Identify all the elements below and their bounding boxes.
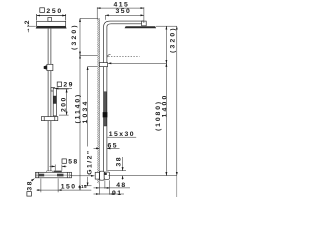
hand shower knob xyxy=(103,112,107,117)
leader sq38 xyxy=(31,179,35,181)
svg-text:250: 250 xyxy=(46,8,62,15)
dim 150 extension lines xyxy=(40,179,42,193)
dashed holder line xyxy=(108,56,139,58)
valve side view wall union xyxy=(95,172,99,179)
svg-text:15x30: 15x30 xyxy=(109,131,135,138)
svg-text:58: 58 xyxy=(68,159,78,166)
hand shower handle lower xyxy=(104,117,107,126)
tick wall-top to line A xyxy=(80,18,99,20)
leader sq29 xyxy=(55,87,72,89)
text sq58 xyxy=(62,159,66,163)
svg-text:(320): (320) xyxy=(71,23,78,50)
tick connector right xyxy=(108,62,167,64)
text sq38 xyxy=(27,192,32,197)
valve side dark detail xyxy=(104,173,107,175)
shared extension stem center xyxy=(143,7,145,23)
dim line 350 xyxy=(105,14,144,16)
holder hook right view xyxy=(107,54,110,57)
dim line 150 xyxy=(37,189,41,191)
tick bottom line B xyxy=(84,185,92,187)
long valve centerline right xyxy=(109,175,177,177)
text sq250 xyxy=(40,8,45,13)
shower head body left view xyxy=(37,21,66,26)
wall line right view xyxy=(98,19,100,184)
dim 38 vertical xyxy=(122,157,124,171)
svg-text:(1140): (1140) xyxy=(74,93,81,124)
dim sq58 extension+arrows xyxy=(54,165,56,171)
head stem right view xyxy=(142,21,147,26)
svg-text:G1/2": G1/2" xyxy=(86,149,93,174)
ext valve front down xyxy=(109,180,111,194)
svg-text:48: 48 xyxy=(116,182,126,189)
line D continuation below centerline xyxy=(176,176,178,197)
riser pipe right view xyxy=(103,28,105,171)
pipe connector left view xyxy=(47,64,53,70)
shower head face plate (dark) left view xyxy=(36,26,67,28)
wall bracket right view xyxy=(99,63,107,67)
valve dark band right xyxy=(57,174,64,177)
holder bracket left view xyxy=(51,88,55,92)
bottom cross bar left view xyxy=(41,117,57,121)
dim line square250 xyxy=(37,15,66,17)
dim 200 xyxy=(57,89,69,115)
dim 65 xyxy=(94,147,100,149)
ext wall down xyxy=(98,183,100,195)
svg-text:1400: 1400 xyxy=(161,94,168,118)
valve cap lines xyxy=(36,172,38,178)
svg-text:150: 150 xyxy=(61,184,77,191)
tick hose outlet xyxy=(108,170,126,172)
svg-text:38: 38 xyxy=(27,180,34,190)
pipe collar at valve xyxy=(47,171,53,172)
dim 48 xyxy=(94,187,100,189)
wall hatch xyxy=(97,19,99,184)
valve dark band left xyxy=(39,174,44,177)
valve side view outer ring xyxy=(100,171,105,180)
valve centerline to wall with G1/2 arrow xyxy=(70,175,94,177)
text sq29 xyxy=(57,82,61,86)
svg-text:(320): (320) xyxy=(169,26,176,53)
svg-text:29: 29 xyxy=(63,82,73,89)
svg-text:2: 2 xyxy=(24,19,31,24)
riser pipe left view xyxy=(47,29,49,173)
dim 350 extension left xyxy=(104,15,106,19)
ext pipe center down xyxy=(104,180,106,188)
valve top fitting sq58 xyxy=(54,171,62,173)
svg-text:350: 350 xyxy=(116,8,132,15)
tick connector to line B xyxy=(88,66,100,68)
dim 91 xyxy=(94,193,100,195)
svg-text:38: 38 xyxy=(115,156,122,166)
hand shower left view xyxy=(53,88,56,116)
dim line B 1034 xyxy=(87,67,89,147)
hand shower side view xyxy=(104,92,107,113)
valve centerline inner xyxy=(36,174,72,176)
dim 415 extension left xyxy=(96,7,98,19)
hand shower grip dark left view xyxy=(53,96,56,104)
dim col right: top tick xyxy=(156,25,177,27)
valve side view body ring xyxy=(104,172,109,179)
dim line 415 xyxy=(97,7,144,9)
line D 1400 xyxy=(176,26,178,175)
dim 2 (plate thickness) ticks xyxy=(27,25,36,27)
valve body left view xyxy=(36,172,72,178)
shower arm right view xyxy=(104,21,144,28)
svg-text:±15: ±15 xyxy=(78,184,87,189)
head stem left view xyxy=(48,18,52,22)
svg-text:200: 200 xyxy=(61,96,68,112)
svg-text:65: 65 xyxy=(108,143,118,150)
connector knob dark left view xyxy=(44,65,47,69)
line C (320)/(1080) xyxy=(165,26,167,175)
svg-text:91: 91 xyxy=(112,190,122,197)
svg-text:1034: 1034 xyxy=(82,100,89,124)
tick holder level line A xyxy=(80,55,99,57)
dim line A (320)/(1140) column xyxy=(79,19,81,191)
leader 15x30 xyxy=(107,136,136,138)
head plate right view (dark) xyxy=(125,26,157,28)
